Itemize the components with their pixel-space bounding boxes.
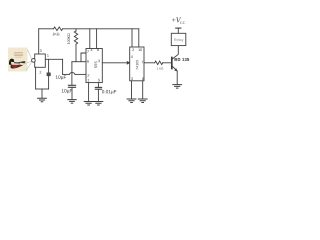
- label U2 pin7: [141, 61, 143, 64]
- label 555: [94, 62, 97, 68]
- wire 100K top lead: [75, 29, 77, 31]
- wire 555 pin3 to IC2 clock: [102, 62, 127, 64]
- wire 555 pin1 to ground: [88, 83, 90, 102]
- label U2 pin2: [132, 48, 134, 51]
- ground (C2): [68, 100, 76, 104]
- label U2 pin3: [131, 77, 133, 80]
- wire bottom rail: [36, 88, 49, 90]
- wire U2 pin2 to rail: [131, 29, 133, 47]
- wire ground drop (mic): [41, 89, 43, 98]
- labels: [40, 18, 190, 95]
- label 555 pin7: [87, 50, 89, 53]
- wire jog to 555 pin7: [81, 53, 86, 62]
- wire node down to capacitor C2: [71, 62, 73, 85]
- label U2 pin8: [142, 77, 144, 80]
- transistor Q1 BD135: [171, 58, 173, 69]
- label 1Kohm: [53, 33, 60, 36]
- wire mic pin1 output: [45, 58, 62, 60]
- capacitor C3 0.01uF plates: [95, 86, 101, 88]
- wire U2 pin7 to R3: [144, 62, 155, 64]
- callout lines from photo to mic symbol: [28, 50, 32, 59]
- wire 100K bottom lead to pins 6/7 node: [75, 44, 77, 61]
- label Relay: [174, 38, 183, 42]
- wire R3 to base: [163, 62, 172, 64]
- wire signal down: [62, 59, 64, 74]
- label U2 pin16: [138, 48, 142, 51]
- ground (U2 pin8): [138, 99, 147, 103]
- IC U2 74109 box: [130, 47, 144, 81]
- label 555 pin5: [98, 79, 100, 82]
- label mic pin 2: [40, 71, 42, 74]
- clock arrowhead U2 pin4: [127, 61, 131, 65]
- wire U2 pin16 to rail: [138, 29, 140, 47]
- IC U1 555 box: [86, 49, 102, 83]
- microphone MIC1 body: [35, 54, 46, 67]
- label C2 10uF: [62, 89, 72, 93]
- label 555 pin4: [91, 48, 93, 51]
- wire rail to mic pin3: [38, 29, 40, 54]
- top rail right segment: [63, 28, 139, 30]
- ground (mic): [38, 98, 47, 102]
- label 100Kohm: [67, 33, 70, 44]
- wire U2 pin8 to ground: [142, 81, 144, 99]
- wire node to 555 pin6: [72, 61, 86, 63]
- resistor R2 100K (vertical): [74, 31, 77, 44]
- relay RL1 box: [171, 33, 186, 45]
- label 555 pin8: [97, 48, 99, 51]
- resistor R3 1K (base): [155, 61, 163, 65]
- wire 555 pin4 to rail: [89, 29, 91, 49]
- label mic pin 3: [40, 49, 42, 52]
- label 555 pin1: [88, 79, 90, 82]
- label R3 1Kohm: [157, 67, 163, 69]
- label mic pin 1: [47, 54, 49, 57]
- label U2 pin4: [131, 55, 133, 58]
- wire U2 pin3 to ground: [131, 81, 133, 99]
- +Vcc terminal: [176, 27, 181, 29]
- wire to 555 pin2 with hop: [63, 73, 70, 75]
- top rail left segment: [39, 28, 54, 30]
- wire 555 pin5 to C3: [97, 83, 99, 88]
- resistor R1 1K (in top rail): [54, 27, 63, 31]
- photo inset (mic picture): [8, 48, 28, 72]
- label 555 pin2: [88, 74, 90, 77]
- ground (U2 pin3): [127, 99, 136, 103]
- label 555 pin3: [98, 60, 100, 63]
- label C3 0.01uF: [102, 90, 116, 94]
- label C1 10uF: [56, 75, 66, 79]
- emitter path: [172, 66, 177, 71]
- ground (555 pin1): [84, 102, 93, 106]
- label BD 135: [175, 58, 190, 61]
- ground (C3): [94, 102, 103, 106]
- collector path from relay: [172, 46, 178, 60]
- wire C3 to ground: [97, 90, 99, 102]
- ground (emitter): [173, 85, 182, 89]
- capacitor C1 10uF (blob): [48, 59, 50, 72]
- label 555 pin6: [87, 60, 89, 63]
- capacitor C2 10uF plates: [68, 84, 75, 86]
- wire mic pin2 to bottom rail: [35, 67, 37, 89]
- label 74109: [136, 60, 138, 70]
- wire C2 to ground: [71, 88, 73, 100]
- wire 555 pin8 to rail: [96, 29, 98, 49]
- label +Vcc: [172, 18, 185, 24]
